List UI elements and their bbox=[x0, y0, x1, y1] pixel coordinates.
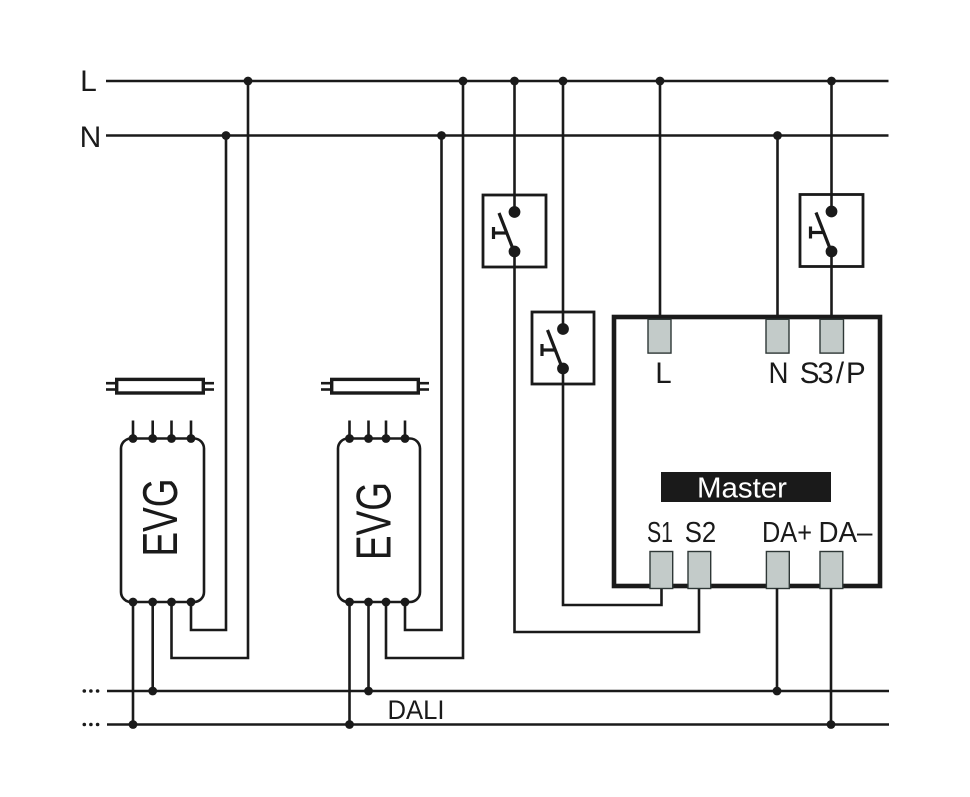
push-button SW3 bbox=[800, 195, 863, 267]
lamp LA2 bbox=[321, 379, 429, 393]
svg-text:L: L bbox=[80, 65, 97, 98]
node DALI DA- at EVG2 pin1 bbox=[345, 720, 354, 729]
node L junction x831.5 bbox=[827, 77, 836, 86]
svg-text:S2: S2 bbox=[685, 517, 717, 549]
node DALI DA- at EVG1 pin1 bbox=[129, 720, 138, 729]
svg-text:DA+: DA+ bbox=[762, 517, 812, 549]
lamp LA1 bbox=[106, 379, 214, 393]
node L junction x660 bbox=[656, 77, 665, 86]
wire L bus to EVG2 pin3 bbox=[386, 81, 463, 658]
svg-text:S3 / P: S3 / P bbox=[800, 357, 866, 390]
net L bus bbox=[106, 80, 889, 83]
wire push-button SW1 to Master terminal S2 bbox=[515, 252, 700, 633]
wire Master DA- to DALI DA- line bbox=[830, 589, 833, 725]
wire N bus to EVG2 pin4 bbox=[405, 136, 442, 631]
wire push-button SW2 to Master terminal S1 bbox=[563, 369, 662, 606]
wire N bus to EVG1 pin4 bbox=[191, 136, 226, 631]
node L junction x563 bbox=[559, 77, 568, 86]
wire push-button SW3 to Master terminal S3/P bbox=[830, 252, 833, 320]
node L junction x463 bbox=[459, 77, 468, 86]
svg-text:S1: S1 bbox=[647, 517, 673, 549]
node DALI DA+ at EVG2 pin2 bbox=[364, 687, 373, 696]
svg-text:N: N bbox=[769, 357, 789, 390]
control unit Master bbox=[614, 317, 880, 589]
ballast EVG2 bbox=[338, 421, 420, 607]
DALI bus DA+ line bbox=[107, 690, 889, 693]
wire EVG1 pin2 to DALI DA+ line bbox=[151, 602, 154, 691]
wire EVG1 pin1 to DALI DA- line bbox=[132, 602, 135, 725]
svg-text:L: L bbox=[655, 357, 671, 390]
push-button SW2 bbox=[532, 312, 594, 384]
ballast EVG1 bbox=[121, 421, 204, 607]
DALI DA+ line left ellipsis bbox=[83, 689, 100, 693]
svg-text:DA–: DA– bbox=[819, 517, 874, 549]
node N junction x226 bbox=[222, 131, 231, 140]
wire L bus to Master terminal L bbox=[659, 81, 662, 319]
node DALI DA- at Master bbox=[827, 720, 836, 729]
node DALI DA+ at Master bbox=[773, 687, 782, 696]
net N bus bbox=[106, 134, 889, 137]
wire N bus to Master terminal N bbox=[776, 136, 779, 320]
wire L bus to push-button SW3 bbox=[830, 81, 833, 212]
svg-text:Master: Master bbox=[697, 473, 788, 505]
node N junction x441.5 bbox=[437, 131, 446, 140]
svg-text:EVG: EVG bbox=[134, 479, 188, 557]
wire L bus to EVG1 pin3 bbox=[172, 81, 249, 658]
wire EVG2 pin2 to DALI DA+ line bbox=[367, 602, 370, 691]
svg-text:N: N bbox=[80, 121, 102, 154]
push-button SW1 bbox=[483, 195, 546, 267]
svg-text:DALI: DALI bbox=[388, 695, 445, 725]
node L junction x514.5 bbox=[510, 77, 519, 86]
DALI bus DA- line bbox=[107, 723, 889, 726]
wire Master DA+ to DALI DA+ line bbox=[776, 589, 779, 692]
node N junction x777.5 bbox=[773, 131, 782, 140]
wire L bus to push-button SW1 bbox=[513, 81, 516, 212]
DALI DA- line left ellipsis bbox=[83, 723, 100, 727]
node DALI DA+ at EVG1 pin2 bbox=[148, 687, 157, 696]
node L junction x248 bbox=[244, 77, 253, 86]
wire EVG2 pin1 to DALI DA- line bbox=[348, 602, 351, 725]
wire L bus to push-button SW2 bbox=[562, 81, 565, 329]
svg-text:EVG: EVG bbox=[348, 482, 402, 560]
